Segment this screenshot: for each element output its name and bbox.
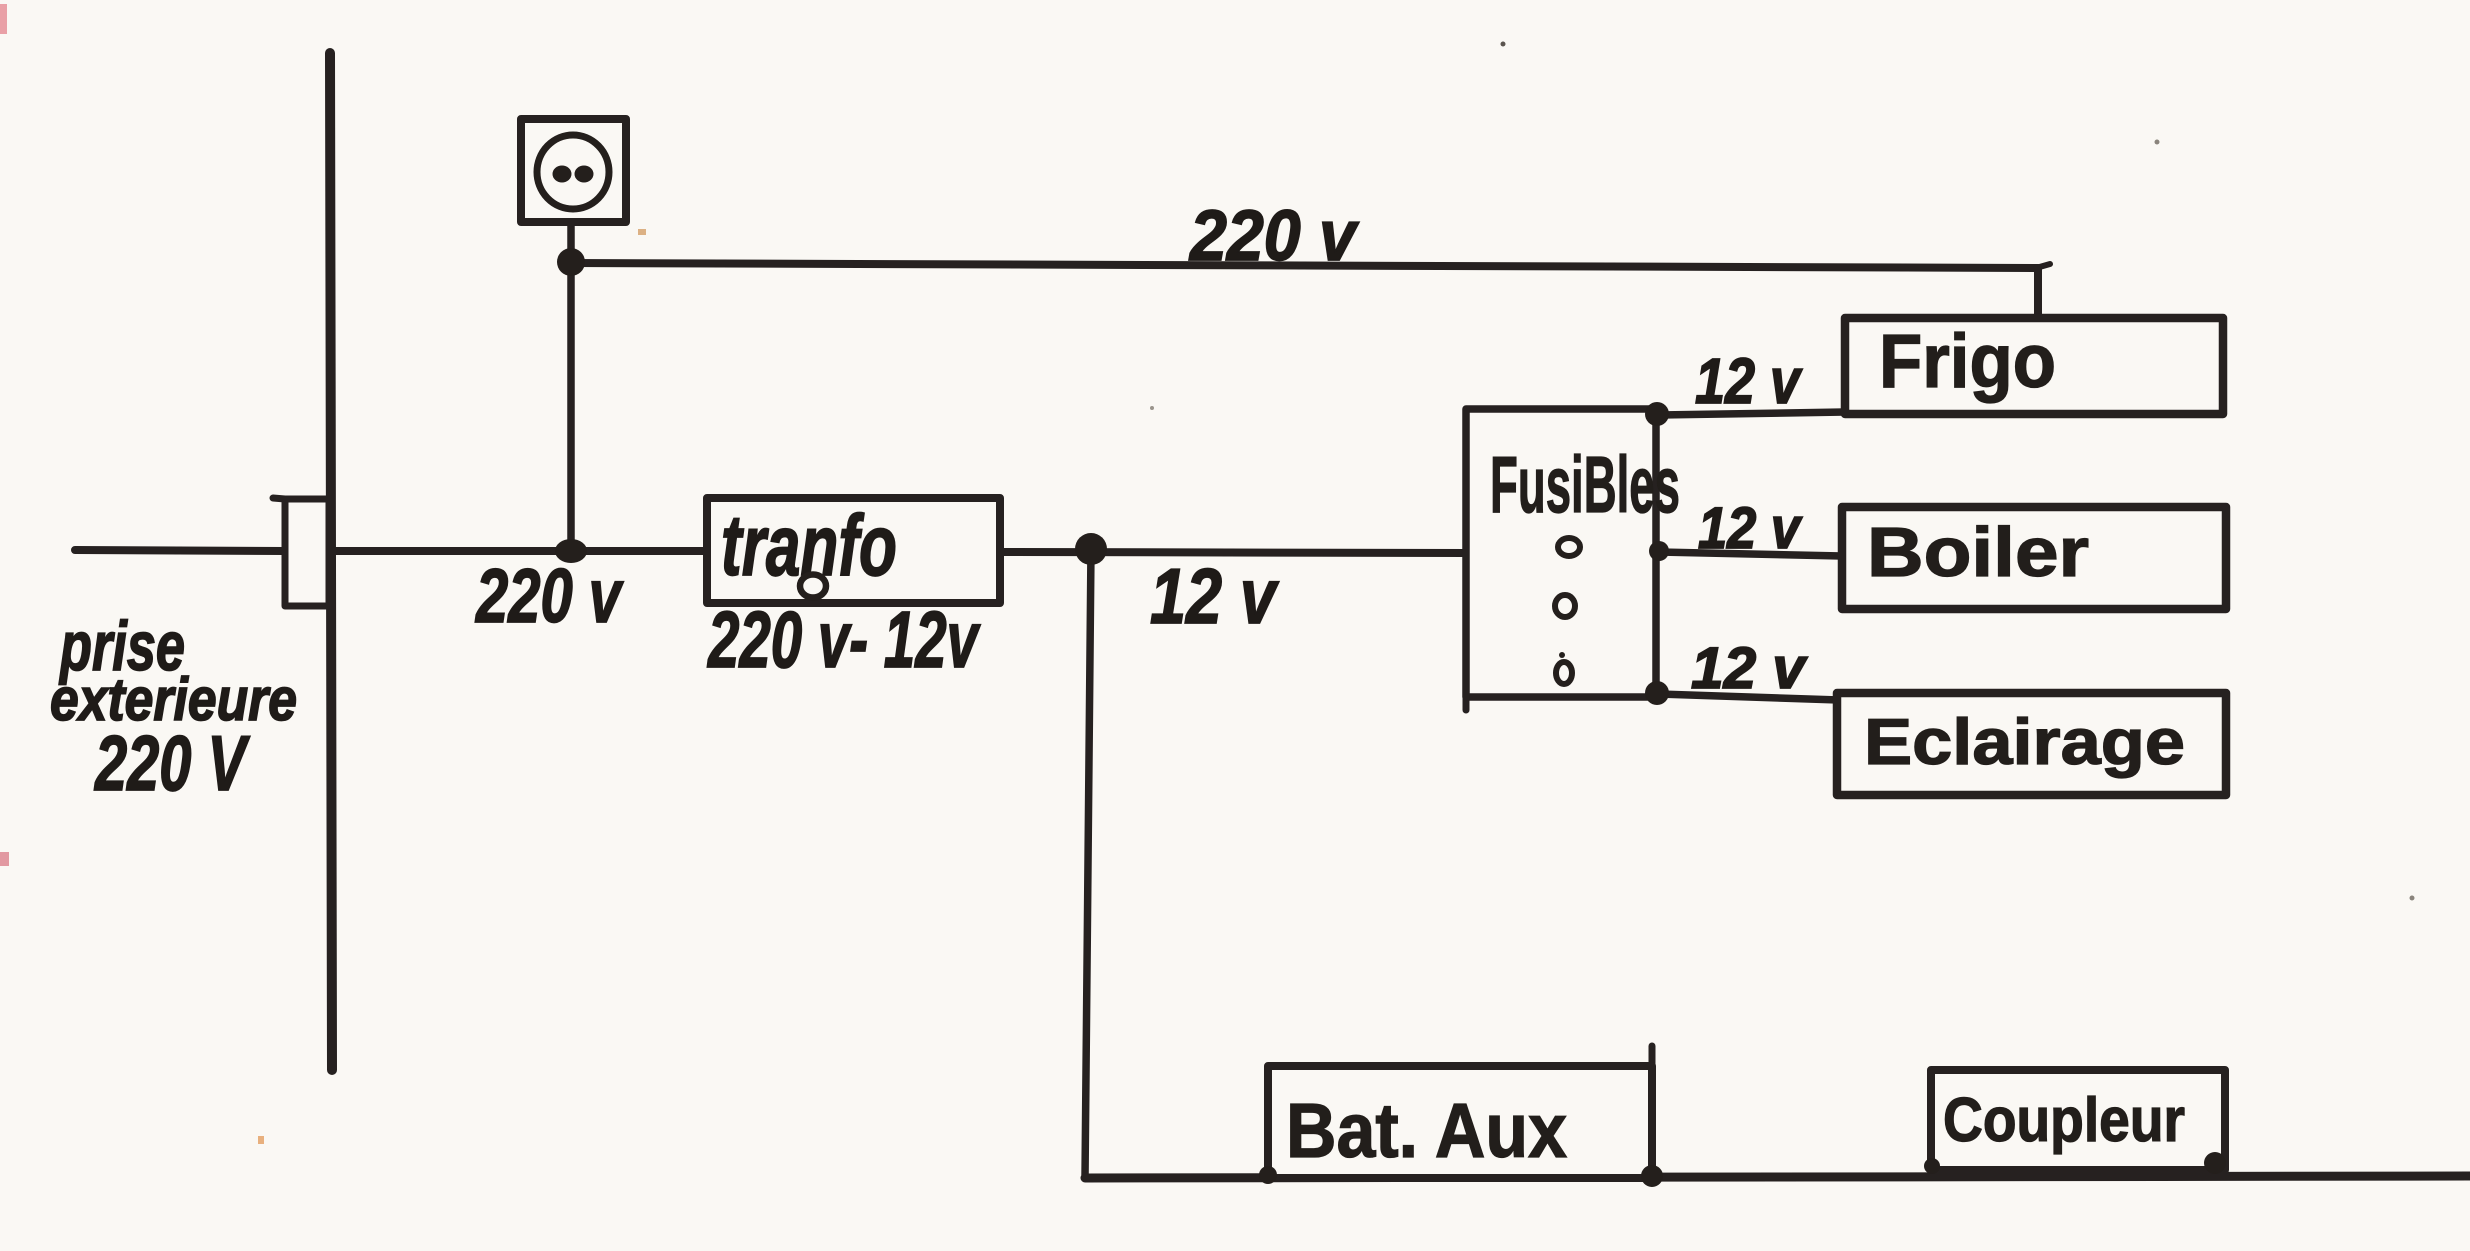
svg-text:Coupleur: Coupleur (1943, 1086, 2185, 1155)
svg-text:Boiler: Boiler (1867, 513, 2089, 591)
svg-text:220 v: 220 v (474, 554, 623, 639)
svg-text:tranfo: tranfo (721, 498, 897, 594)
svg-text:12 v: 12 v (1691, 636, 1808, 701)
svg-text:12 v: 12 v (1695, 345, 1803, 417)
svg-text:Frigo: Frigo (1879, 319, 2056, 404)
svg-text:220 V: 220 V (94, 719, 251, 807)
svg-text:12 v: 12 v (1698, 496, 1802, 561)
svg-text:Eclairage: Eclairage (1864, 705, 2185, 778)
svg-text:FusiBles: FusiBles (1490, 440, 1680, 529)
svg-text:Bat. Aux: Bat. Aux (1286, 1088, 1567, 1174)
svg-text:12 v: 12 v (1150, 552, 1279, 640)
svg-text:220 v- 12v: 220 v- 12v (707, 595, 982, 684)
svg-text:220 v: 220 v (1188, 197, 1359, 276)
